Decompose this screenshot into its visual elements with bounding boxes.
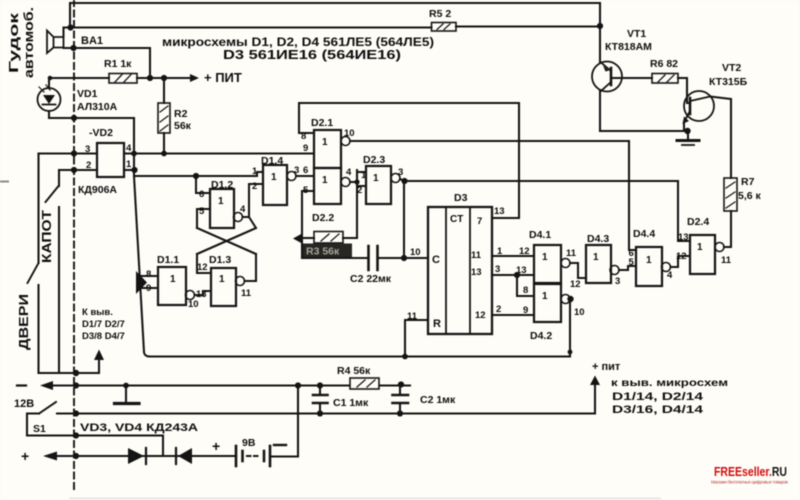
wire down to C node	[403, 181, 405, 258]
svg-text:+ ПИТ: + ПИТ	[204, 70, 242, 85]
svg-text:-VD2: -VD2	[89, 127, 113, 139]
svg-text:13: 13	[516, 265, 527, 276]
svg-text:D1.4: D1.4	[261, 155, 283, 167]
svg-text:+: +	[212, 438, 220, 454]
svg-text:2: 2	[86, 160, 91, 171]
svg-text:С1 1мк: С1 1мк	[333, 397, 369, 409]
svg-text:КД906А: КД906А	[78, 184, 117, 196]
svg-text:1: 1	[593, 252, 599, 263]
svg-text:7: 7	[477, 216, 482, 227]
svg-text:FREEseller.RU: FREEseller.RU	[714, 464, 787, 479]
scan artifact dash left	[0, 181, 8, 183]
arrow to +PIT	[190, 74, 199, 82]
svg-text:8: 8	[301, 131, 306, 142]
node battery to ground rail	[295, 382, 301, 388]
node emitter ground junction	[684, 128, 690, 134]
svg-text:+ пит: + пит	[592, 361, 621, 373]
svg-text:1: 1	[497, 246, 503, 257]
svg-text:9: 9	[303, 143, 308, 154]
gate D4.1 output bubble	[561, 259, 570, 268]
wire door column lower	[37, 285, 39, 373]
wire VT2 emitter to ground node	[683, 122, 685, 131]
wire top supply rail A	[70, 2, 600, 4]
svg-text:10: 10	[574, 307, 585, 318]
wire BA1 bottom	[64, 48, 151, 78]
gate D4.1	[534, 245, 561, 283]
wire D2.3 out long to D2.4	[400, 179, 678, 181]
svg-text:R1 1к: R1 1к	[104, 58, 132, 70]
svg-text:1: 1	[218, 196, 224, 207]
svg-text:Гудок: Гудок	[7, 12, 21, 73]
svg-text:1: 1	[373, 173, 379, 184]
wire V1 from VD2 pin1 down to D1.1 inputs and feedback rail	[134, 118, 144, 352]
wire D3 out 1 to D4.1 input 12	[492, 255, 534, 257]
gate D1.3	[211, 268, 236, 306]
svg-text:8: 8	[523, 285, 528, 296]
gate D1.1 output bubble	[186, 291, 195, 300]
wire VT1 collector down	[599, 91, 601, 131]
svg-text:11: 11	[241, 288, 252, 299]
resistor R1	[109, 74, 137, 84]
wire VD2 pin3	[39, 152, 98, 154]
gate D2.1	[314, 130, 341, 168]
svg-text:D2.3: D2.3	[363, 154, 385, 166]
svg-text:D1.2: D1.2	[211, 179, 233, 191]
svg-text:1: 1	[219, 274, 225, 285]
svg-text:D4.3: D4.3	[587, 233, 609, 245]
gate D1.2	[210, 189, 234, 228]
wire frame D3 pin7 to D2.1 input 8	[299, 103, 519, 218]
wire R1 left	[50, 77, 109, 79]
wire C2 right to D3 C input	[378, 257, 429, 259]
svg-text:к выв. микросхем: к выв. микросхем	[611, 377, 728, 389]
gate D2.2	[314, 168, 341, 204]
node out3 branch	[514, 272, 520, 278]
wire VD1 bottom to VD2 pin4 column	[49, 111, 134, 153]
wire D2.2 out to D2.3 inputs	[350, 170, 366, 238]
switch S1	[39, 402, 56, 414]
wire door-switch column	[37, 154, 39, 264]
svg-text:4: 4	[667, 270, 673, 281]
svg-text:VT2: VT2	[722, 62, 741, 74]
wire D2.1 out to D4.4 input 6	[350, 141, 636, 250]
svg-text:2: 2	[496, 304, 501, 315]
wire D2.2 input 5 and timing node	[302, 191, 314, 258]
gate D2.2 output bubble	[341, 178, 350, 187]
svg-text:R5 2: R5 2	[429, 8, 451, 20]
wire VD2 pin2	[59, 169, 97, 171]
svg-text:АЛ310А: АЛ310А	[77, 101, 118, 113]
svg-text:1: 1	[361, 170, 367, 181]
svg-text:D1/7 D2/7: D1/7 D2/7	[82, 319, 125, 330]
svg-text:1: 1	[322, 137, 328, 148]
svg-text:+: +	[21, 448, 29, 464]
wire D2.3 out down to D2.4 input 13	[678, 181, 690, 241]
node dashed/BA1 bottom	[70, 45, 76, 51]
wire VD1 top	[48, 78, 50, 88]
gate D1.1	[158, 267, 186, 305]
node D2.2 output junction	[354, 179, 359, 184]
svg-text:R7: R7	[741, 176, 755, 188]
wire D3 R input from feedback rail	[405, 320, 428, 357]
gate D4.3 output bubble	[610, 266, 619, 275]
VT2 emitter arrow	[683, 117, 690, 125]
svg-text:D2.4: D2.4	[687, 216, 709, 228]
svg-text:9В: 9В	[242, 437, 256, 449]
gate D4.2	[534, 284, 561, 322]
svg-text:D2.1: D2.1	[311, 117, 333, 129]
svg-text:1: 1	[542, 252, 548, 263]
wire branch to D1 gates row	[134, 172, 263, 176]
svg-text:12: 12	[676, 251, 687, 262]
switch KAPOT arm	[46, 186, 59, 202]
svg-text:автомоб.: автомоб.	[22, 7, 36, 78]
resistor R7	[724, 178, 737, 211]
svg-text:D3: D3	[454, 192, 468, 204]
wire switch common rail	[39, 372, 100, 374]
wire VD2 pin4 to D2.1 input 9	[124, 152, 314, 154]
diode block VD2	[97, 143, 124, 177]
wire D2.4 out to R7	[724, 211, 731, 247]
gate D4.4 output bubble	[662, 263, 671, 272]
svg-text:С2 22мк: С2 22мк	[350, 273, 392, 285]
node C2 / D2.3 out	[401, 255, 407, 261]
svg-text:КТ818АМ: КТ818АМ	[605, 41, 652, 53]
svg-text:11: 11	[471, 250, 482, 261]
battery minus sign	[274, 444, 286, 446]
resistor R6	[652, 74, 678, 84]
wire D4.4 out to D2.4 input 12	[671, 256, 691, 267]
diode VD4	[175, 448, 177, 464]
svg-text:1: 1	[170, 274, 176, 285]
node BA1 top junction	[67, 24, 73, 30]
wire hood column lower	[58, 207, 60, 373]
switch DVERI arm	[28, 263, 39, 283]
gate D1.3 output bubble	[236, 277, 245, 286]
svg-text:R2: R2	[174, 108, 188, 120]
gate D2.1 output bubble	[341, 137, 350, 146]
junction arrow R3 node	[293, 234, 302, 244]
capacitor C2 22uF	[369, 246, 378, 270]
svg-text:13: 13	[471, 267, 482, 278]
svg-text:3: 3	[398, 167, 403, 178]
svg-text:С2 1мк: С2 1мк	[420, 394, 456, 406]
counter D3 inner dividers	[446, 207, 470, 334]
wire D1.1 input 9	[140, 287, 158, 289]
svg-text:КАПОТ: КАПОТ	[40, 210, 54, 263]
svg-text:D4.4: D4.4	[633, 228, 655, 240]
node R2 top junction	[161, 75, 167, 81]
svg-text:5: 5	[303, 185, 309, 196]
wire middle rail to +PIT arrow	[57, 381, 595, 414]
resistor R5	[432, 23, 457, 32]
wire VT1 collector to VT2 emitter	[600, 130, 688, 132]
svg-text:2: 2	[252, 181, 257, 192]
svg-text:10: 10	[410, 247, 421, 258]
gate D1.4	[263, 165, 287, 205]
capacitor C2 1uF	[393, 395, 409, 403]
wire branch to D4.2 input 8	[517, 275, 534, 296]
svg-text:VD3, VD4 КД243А: VD3, VD4 КД243А	[80, 422, 198, 434]
svg-text:D1.1: D1.1	[157, 254, 179, 266]
svg-text:1: 1	[542, 291, 548, 302]
svg-text:12В: 12В	[14, 398, 34, 410]
counter D3 box	[428, 207, 492, 334]
wire VD2 pin1	[124, 169, 134, 171]
svg-text:D1.3: D1.3	[209, 254, 231, 266]
svg-text:3: 3	[85, 144, 90, 155]
svg-text:D4.2: D4.2	[530, 330, 552, 342]
battery 9V	[235, 446, 238, 466]
wire D1.2 out up to D1.4 input 2	[249, 184, 263, 217]
svg-text:R6 82: R6 82	[650, 58, 678, 70]
wire battery bottom rail with plus arrow	[43, 452, 57, 461]
wire C2 left	[302, 257, 369, 259]
gate D4.3	[586, 245, 611, 283]
wire VT1 emitter up	[599, 3, 601, 63]
junction arrow D1.1 inputs	[136, 271, 147, 294]
svg-text:микросхемы D1, D2, D4 561ЛЕ5 (: микросхемы D1, D2, D4 561ЛЕ5 (564ЛЕ5)	[162, 35, 434, 49]
svg-text:R3 56к: R3 56к	[306, 246, 340, 258]
svg-text:ДВЕРИ: ДВЕРИ	[17, 294, 31, 350]
arrow to chip ground pins	[98, 357, 100, 373]
svg-text:6: 6	[199, 189, 204, 200]
wire D3 out 3 to D4.1 input 13	[492, 274, 534, 276]
svg-text:Магазин бесплатных цифровых то: Магазин бесплатных цифровых товаров	[711, 480, 789, 485]
svg-text:4: 4	[126, 143, 132, 154]
wire D1.1 input 8	[140, 275, 158, 277]
svg-text:12: 12	[475, 310, 486, 321]
node R1/BA1 junction	[147, 75, 153, 81]
wire R3 right	[343, 237, 357, 239]
gate D2.3 output bubble	[391, 174, 400, 183]
transistor VT1	[592, 62, 622, 92]
speaker BA1	[47, 31, 64, 54]
diode VD3	[128, 448, 144, 464]
gate D2.4 output bubble	[715, 243, 724, 252]
wire D1.2 input 6	[196, 176, 210, 193]
svg-text:5,6 к: 5,6 к	[738, 190, 762, 202]
svg-text:D2.2: D2.2	[312, 212, 334, 224]
wire battery to ground rail	[270, 386, 298, 457]
svg-text:1: 1	[271, 172, 277, 183]
svg-text:К выв.: К выв.	[82, 307, 113, 318]
gate D1.2 output bubble	[234, 213, 243, 222]
svg-text:4: 4	[346, 167, 352, 178]
wire D4.1 out to D4.3 input	[570, 263, 586, 278]
svg-text:9: 9	[146, 283, 151, 294]
svg-text:11: 11	[566, 248, 577, 259]
ground symbol at VT2	[687, 131, 689, 140]
wire D4.3 out to D4.4 input 5	[619, 266, 636, 270]
wire D3 out 2 to D4.2 input 9	[492, 314, 534, 316]
dashed car-body boundary line	[73, 0, 75, 490]
LED VD1	[38, 88, 61, 111]
svg-text:3: 3	[615, 276, 620, 287]
svg-text:3: 3	[495, 264, 500, 275]
svg-text:6: 6	[303, 165, 308, 176]
wire ground rail left with minus arrow	[17, 384, 26, 386]
svg-text:2: 2	[357, 185, 362, 196]
node dashed/LED wire	[71, 115, 77, 121]
svg-text:10: 10	[344, 128, 355, 139]
scan edge line bottom	[70, 498, 660, 500]
svg-text:3: 3	[294, 165, 299, 176]
svg-text:D3/16, D4/14: D3/16, D4/14	[612, 404, 704, 416]
svg-text:КТ315Б: КТ315Б	[709, 76, 748, 88]
svg-text:56к: 56к	[174, 120, 192, 132]
svg-text:5: 5	[199, 206, 205, 217]
svg-text:12: 12	[570, 279, 581, 290]
svg-text:R: R	[433, 318, 441, 330]
svg-text:C: C	[432, 254, 440, 266]
wire D1.1 out to D1.3 in13	[195, 291, 212, 295]
svg-text:1: 1	[322, 175, 328, 186]
node D1.2 input junction	[193, 173, 199, 179]
wire D1.2 input 5	[197, 209, 210, 228]
svg-text:5: 5	[629, 257, 635, 268]
svg-text:12: 12	[197, 262, 208, 273]
wire drop from rail A to BA1 node	[69, 3, 71, 28]
svg-text:D3 561ИЕ16 (564ИЕ16): D3 561ИЕ16 (564ИЕ16)	[223, 48, 401, 62]
svg-text:12: 12	[519, 246, 530, 257]
transistor VT2	[684, 91, 714, 121]
svg-text:VT1: VT1	[627, 28, 646, 40]
svg-text:10: 10	[188, 299, 199, 310]
wire R3 left	[302, 237, 314, 239]
svg-text:1: 1	[697, 242, 703, 253]
wire R5 to VT1 emitter node	[456, 25, 600, 27]
wire BA1 top to rail B	[64, 28, 432, 38]
wire R6 to VT2 base	[678, 78, 690, 103]
gate D1.4 output bubble	[287, 172, 296, 181]
svg-text:13: 13	[678, 232, 689, 243]
gate D2.4	[690, 235, 715, 274]
svg-text:D3/8 D4/7: D3/8 D4/7	[82, 331, 125, 342]
svg-text:11: 11	[721, 255, 732, 266]
resistor R3	[314, 232, 343, 244]
capacitor C1	[313, 395, 328, 403]
wire D1.3 input 12	[197, 254, 211, 273]
svg-text:4: 4	[240, 204, 246, 215]
resistor R4	[350, 378, 379, 389]
svg-text:CT: CT	[450, 214, 463, 225]
wire S1 to diode junction	[27, 436, 163, 457]
gate D4.2 output bubble	[561, 295, 570, 304]
label R3 value background	[303, 244, 352, 258]
VT1 emitter arrow	[603, 66, 609, 72]
node feedback rail junction	[568, 350, 573, 355]
svg-text:D4.1: D4.1	[529, 229, 551, 241]
gate D4.4	[636, 247, 662, 286]
wire D1.4 out to D2.2 input 6	[296, 175, 314, 177]
svg-text:11: 11	[407, 311, 418, 322]
wire feedback rail D4.2 output to D1.1	[144, 352, 569, 357]
node D4.2 output	[567, 296, 573, 302]
svg-text:1: 1	[646, 255, 652, 266]
wire R1 right to +PIT arrow	[137, 77, 190, 79]
svg-text:S1: S1	[33, 423, 46, 435]
svg-text:13: 13	[494, 206, 505, 217]
svg-text:BA1: BA1	[81, 35, 103, 47]
svg-text:1: 1	[252, 166, 258, 177]
svg-text:VD1: VD1	[77, 88, 98, 100]
wire D4.2 out down to feedback rail	[569, 299, 571, 357]
svg-text:8: 8	[146, 269, 151, 280]
svg-text:R4 56к: R4 56к	[337, 365, 371, 377]
ground symbol chassis	[125, 386, 127, 404]
resistor R2	[163, 82, 165, 153]
svg-text:13: 13	[196, 289, 207, 300]
wire hood-switch column	[58, 170, 60, 186]
svg-text:1: 1	[126, 159, 132, 170]
wire VT1 base to R6	[612, 77, 652, 79]
wire latch cross coupling	[197, 217, 256, 281]
wire R7 top to VT2 collector	[710, 97, 731, 179]
svg-text:9: 9	[523, 305, 528, 316]
svg-text:D1/14, D2/14: D1/14, D2/14	[612, 391, 704, 403]
gate D2.3	[366, 166, 391, 204]
node VT1 emitter junction	[597, 23, 603, 29]
